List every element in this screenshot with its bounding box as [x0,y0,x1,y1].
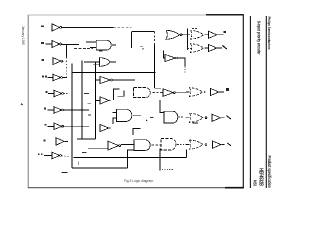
frame left border [27,15,29,188]
wire tick u12in [88,102,92,104]
wire corner K6 hanging [133,129,141,135]
label pin GS [226,116,231,119]
wire A1 output stub [112,44,116,46]
wire tick t1 [150,117,154,119]
wire row8 output [65,140,69,142]
or-gate G13 [190,140,203,149]
node bus B1 [66,44,68,57]
wire long W157 [74,157,187,159]
wire G9 top bracket [192,28,198,30]
node dot mid [146,120,148,122]
input label row5 [46,91,48,93]
or-gate G9 [191,30,204,39]
wire row3 output [63,60,68,62]
wire A4 output [132,114,141,116]
inverter U9 row9 [52,152,60,159]
input label row8 [44,140,46,142]
wire G12 bracket [185,117,189,119]
input label row3 [42,59,45,61]
node G11 out dot [204,91,206,93]
frame top border [28,14,207,16]
label pin Eout [227,143,231,146]
wire A4 input lower corner [113,118,117,124]
label pin O0 [226,88,229,91]
wire R1 top run [132,31,155,33]
wire U20 out [221,144,224,146]
buffer U13 row7mid [100,124,109,131]
wire B7 foot [188,47,193,49]
wire riser K7 [128,150,134,168]
buffer U4 row4 [53,74,61,81]
input label row2 [41,42,44,44]
wire U17 drop dashes [184,66,186,73]
or-gate G11 [190,88,203,97]
node bus B3 vertical [81,61,83,140]
and-gate A3 [134,88,151,98]
wire U11 output [175,91,186,93]
wire riser R1 [131,32,133,48]
buffer U12 [100,97,109,104]
wire U19 out [221,117,225,119]
wire and2 input row [86,41,96,43]
wire W157 right riser [186,149,188,157]
wire corner K5 [160,100,164,113]
header rule 1 [249,16,251,188]
wire tick t2 [77,162,79,165]
wire U10 output [113,79,136,81]
wire G12 under-dash [193,122,198,124]
or-gate G2 [100,58,111,67]
wire A6 to A7 [152,144,161,146]
wire tick a4in [88,114,91,116]
inverter U6 row6 [54,107,62,114]
wire row6 output [64,109,89,111]
and-gate A4 [117,109,132,121]
input label row7 [44,124,46,126]
svg-text:MSI: MSI [252,180,257,186]
svg-text:8-input priority encoder: 8-input priority encoder [256,21,261,55]
label pin O1 [222,45,226,49]
buffer U20 [213,141,221,148]
header rule 2 [265,16,267,188]
inverter U10 mid [100,76,110,83]
wire A3 output [153,92,163,94]
wire row6 input stub [48,109,55,111]
wire row2 output tee [62,43,79,45]
input label row9 [38,153,40,155]
nor-gate G8 top right [166,30,180,39]
wire G13 bracket [185,144,189,146]
wire corner K1 [114,89,120,100]
frame right border [242,15,244,188]
node A1 output dot [113,44,114,45]
inverter U7 row7 [54,123,62,130]
svg-text:Fig.3 Logic diagram.: Fig.3 Logic diagram. [124,179,154,183]
input label row4 [42,76,44,78]
input label row6 [44,108,46,110]
svg-text:Philips Semiconductors: Philips Semiconductors [267,17,272,51]
and-gate A1 [96,40,111,50]
node bus B2 vertical [71,64,73,169]
wire row5 output dashes [64,93,68,95]
wire W1 dashed continuation [114,27,132,29]
wire U12 input [96,99,100,101]
wire row2 lower branch [74,48,93,50]
inverter U11 [163,89,173,97]
buffer U15 [208,31,216,38]
label pin O2 [223,31,226,33]
wire U10 input [96,79,100,81]
wire long W168 [72,167,128,169]
page background [0,0,292,207]
wire row4 input stub [48,77,54,79]
wire stray dash [62,172,68,174]
wire or2 lower input [93,64,100,66]
buffer U1 row1 (Ein) [52,24,60,31]
wire and2 lower stub [90,47,96,49]
svg-text:Product specification: Product specification [267,156,272,188]
wire dash row8b [82,151,87,153]
wire U14 output [121,144,134,146]
wire bottom cluster input [88,147,108,149]
wire G11 bracket [186,91,190,93]
node dot r1 [142,48,144,50]
wire U17 output corner [178,58,185,66]
wire G9 out [205,34,208,36]
inverter U2 row2 [52,41,60,48]
wire A5 output [178,116,184,118]
wire G2 output [111,61,116,63]
and-gate A6 [134,140,150,151]
wire row9 input stub [44,155,52,157]
inverter U5 row5 [54,90,62,97]
wire corner K2 [118,91,125,97]
wire row2 input stub [46,43,53,45]
wire A4 input upper [113,111,117,113]
wire row5 input stub [48,93,54,95]
wire row7 input stub [48,125,55,127]
and-gate A7 [161,138,176,150]
inverter U17 [165,54,175,61]
node bus B8 [159,149,161,171]
node bus B7 [187,28,189,50]
svg-text:January 1995: January 1995 [21,26,25,45]
wire row9 output dashes [62,155,70,158]
wire or2 input [84,61,99,63]
buffer U18 [210,88,218,95]
wire U15 out [217,34,223,36]
wire speck [140,45,143,47]
frame bottom border dark segment [225,187,244,189]
frame top border dark segment [206,14,244,16]
wire U16 out [217,47,222,49]
or-gate G12 [190,113,203,122]
wire drop D1 dashed [154,32,156,45]
buffer U16 [208,44,216,51]
wire U18 out [219,91,224,93]
wire G8 output [182,34,190,36]
buffer U8 row8 [56,138,64,146]
wire B3-B4 bottom connector [77,138,96,140]
wire long W72 [72,72,156,74]
wire G2 top speck [99,50,102,52]
wire drop D1 solid [154,45,156,88]
wire row5 far dash [84,93,89,95]
input label row1 [41,26,44,28]
wire B8 foot dashes [162,169,174,171]
wire D1 foot dash [155,87,161,89]
buffer U19 [212,114,220,121]
wire U17 input corner [163,51,165,58]
or-gate G10 [191,44,204,53]
wire G10 out [205,47,208,49]
and-gate A5 [164,111,178,123]
wire W1 Ein output [62,27,114,29]
frame bottom border [28,187,244,189]
buffer U3 row3 [53,58,61,65]
wire A7 output [177,144,184,146]
inverter U14 bottom [108,141,119,150]
wire row4 output [63,77,67,79]
node bus B4 vertical [95,62,97,139]
wire row7 output [64,125,89,127]
